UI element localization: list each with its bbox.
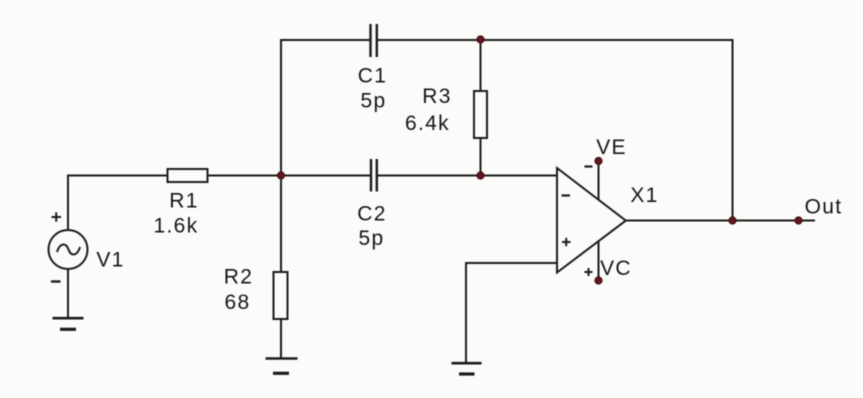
- svg-text:1.6k: 1.6k: [154, 215, 199, 238]
- V1 plus terminal mark: [52, 212, 62, 221]
- ground below op-amp noninverting input: [452, 363, 482, 374]
- svg-text:5p: 5p: [359, 227, 385, 250]
- voltage source V1: [49, 230, 88, 269]
- capacitor C1: [371, 24, 377, 57]
- resistor R2: [274, 272, 288, 319]
- node Out terminal: [795, 217, 802, 224]
- wire op-amp noninverting input vertical: [465, 262, 467, 363]
- wire R2 bottom lead: [280, 319, 282, 358]
- wire V1 to R1: [67, 175, 168, 177]
- wire R2 top lead: [280, 176, 282, 273]
- node junction at R1/R2/C2: [277, 172, 284, 179]
- op-amp X1: [557, 168, 626, 273]
- svg-text:R1: R1: [169, 190, 198, 213]
- svg-text:X1: X1: [630, 184, 658, 207]
- svg-text:C2: C2: [357, 203, 386, 226]
- wire R3 bottom lead: [480, 138, 482, 176]
- svg-text:6.4k: 6.4k: [405, 112, 450, 135]
- svg-text:V1: V1: [96, 249, 124, 272]
- wire C2 to op-amp inverting input: [377, 175, 557, 177]
- wire V1 top vertical: [67, 176, 69, 231]
- capacitor C2: [371, 159, 377, 192]
- wire left loop vertical: [280, 39, 282, 175]
- op-amp inverting input mark: [562, 194, 571, 196]
- svg-text:C1: C1: [358, 65, 387, 88]
- node VC pin terminal: [595, 277, 602, 284]
- wire R1 to node A: [208, 175, 282, 177]
- wire output: [626, 220, 816, 222]
- node junction at R3 top / feedback: [477, 36, 484, 43]
- wire top feedback right segment: [378, 39, 733, 41]
- wire VC pin: [598, 242, 600, 281]
- wire op-amp noninverting input horizontal: [466, 262, 557, 264]
- resistor R3: [474, 91, 487, 138]
- wire feedback right vertical: [732, 39, 734, 221]
- node junction feedback/output: [729, 217, 736, 224]
- wire node A to C2: [281, 175, 370, 177]
- svg-text:Out: Out: [805, 196, 843, 219]
- svg-text:R3: R3: [422, 85, 451, 108]
- svg-text:68: 68: [225, 291, 251, 314]
- V1 minus terminal mark: [51, 280, 61, 282]
- wire VE pin: [598, 161, 600, 200]
- resistor R1: [168, 169, 208, 182]
- op-amp noninverting input mark: [562, 238, 571, 246]
- node VE pin terminal: [595, 157, 602, 164]
- ground below R2: [266, 359, 298, 374]
- ground below V1: [53, 318, 84, 329]
- svg-text:5p: 5p: [361, 90, 387, 113]
- VE pin minus mark: [585, 165, 593, 167]
- VC pin plus mark: [585, 268, 593, 276]
- svg-text:VE: VE: [596, 136, 627, 159]
- node junction at R3 bottom / inverting input: [477, 172, 484, 179]
- svg-text:VC: VC: [600, 257, 632, 280]
- wire R3 top lead: [480, 40, 482, 91]
- wire V1 bottom lead: [67, 269, 69, 318]
- svg-text:R2: R2: [224, 266, 253, 289]
- wire top feedback left segment: [281, 39, 370, 41]
